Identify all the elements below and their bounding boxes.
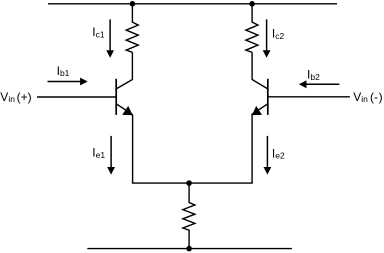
- transistor Q1 base bar: [115, 79, 117, 115]
- wire top supply rail: [48, 3, 337, 5]
- arrow Ie1 current: [110, 136, 112, 168]
- node junction dot top left: [130, 1, 136, 7]
- resistor RC1: [126, 4, 138, 53]
- wire emitter lead Q1: [132, 115, 134, 184]
- transistor Q1 emitter: [116, 104, 132, 115]
- node junction dot bottom: [186, 246, 192, 252]
- transistor Q1 emitter arrow: [122, 106, 133, 115]
- arrow Ic2 current: [266, 19, 268, 51]
- arrow Ib1 current: [48, 81, 82, 83]
- transistor Q2 base bar: [267, 79, 269, 115]
- arrow Ib2 current: [306, 83, 340, 85]
- resistor RC2: [246, 4, 258, 53]
- node junction dot top right: [249, 1, 255, 7]
- wire collector lead Q2: [252, 52, 268, 89]
- transistor Q2 emitter arrow: [252, 106, 262, 115]
- resistor RE tail: [183, 183, 195, 249]
- wire collector lead Q1: [116, 52, 132, 89]
- svg-text:Vin (-): Vin (-): [353, 90, 382, 104]
- wire base Q1: [37, 96, 116, 98]
- wire emitter join: [132, 182, 253, 184]
- wire emitter lead Q2: [251, 115, 253, 184]
- node emitter junction dot: [186, 180, 192, 186]
- transistor Q2 emitter: [251, 104, 267, 115]
- arrow Ie2 current: [266, 136, 268, 168]
- wire base Q2: [268, 96, 350, 98]
- arrow Ic1 current: [109, 19, 111, 51]
- svg-text:Vin (+): Vin (+): [0, 90, 31, 104]
- wire bottom rail: [87, 248, 292, 250]
